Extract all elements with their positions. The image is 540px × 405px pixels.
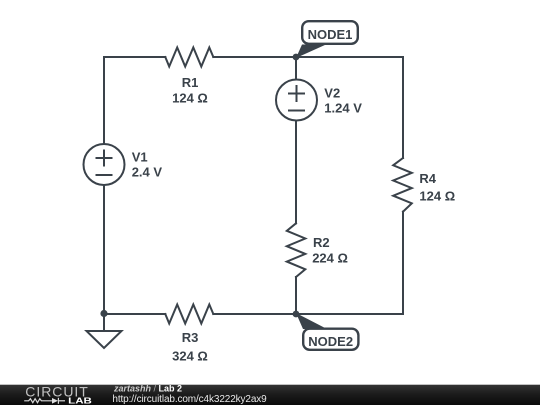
svg-text:R1: R1 xyxy=(182,75,199,90)
svg-text:224 Ω: 224 Ω xyxy=(312,250,348,265)
svg-text:NODE2: NODE2 xyxy=(308,334,353,349)
svg-text:324 Ω: 324 Ω xyxy=(172,349,208,364)
svg-text:124 Ω: 124 Ω xyxy=(172,91,208,106)
svg-text:LAB: LAB xyxy=(68,396,92,405)
svg-text:R4: R4 xyxy=(419,171,436,186)
svg-text:1.24 V: 1.24 V xyxy=(324,100,362,115)
svg-text:R2: R2 xyxy=(313,235,330,250)
svg-text:NODE1: NODE1 xyxy=(308,27,353,42)
svg-text:zartashh / Lab 2: zartashh / Lab 2 xyxy=(113,384,182,394)
svg-text:http://circuitlab.com/c4k3222k: http://circuitlab.com/c4k3222ky2ax9 xyxy=(112,394,267,405)
svg-text:R3: R3 xyxy=(182,330,199,345)
svg-text:2.4 V: 2.4 V xyxy=(132,165,163,180)
svg-text:V2: V2 xyxy=(324,85,340,100)
svg-text:V1: V1 xyxy=(132,150,148,165)
svg-text:124 Ω: 124 Ω xyxy=(419,189,455,204)
